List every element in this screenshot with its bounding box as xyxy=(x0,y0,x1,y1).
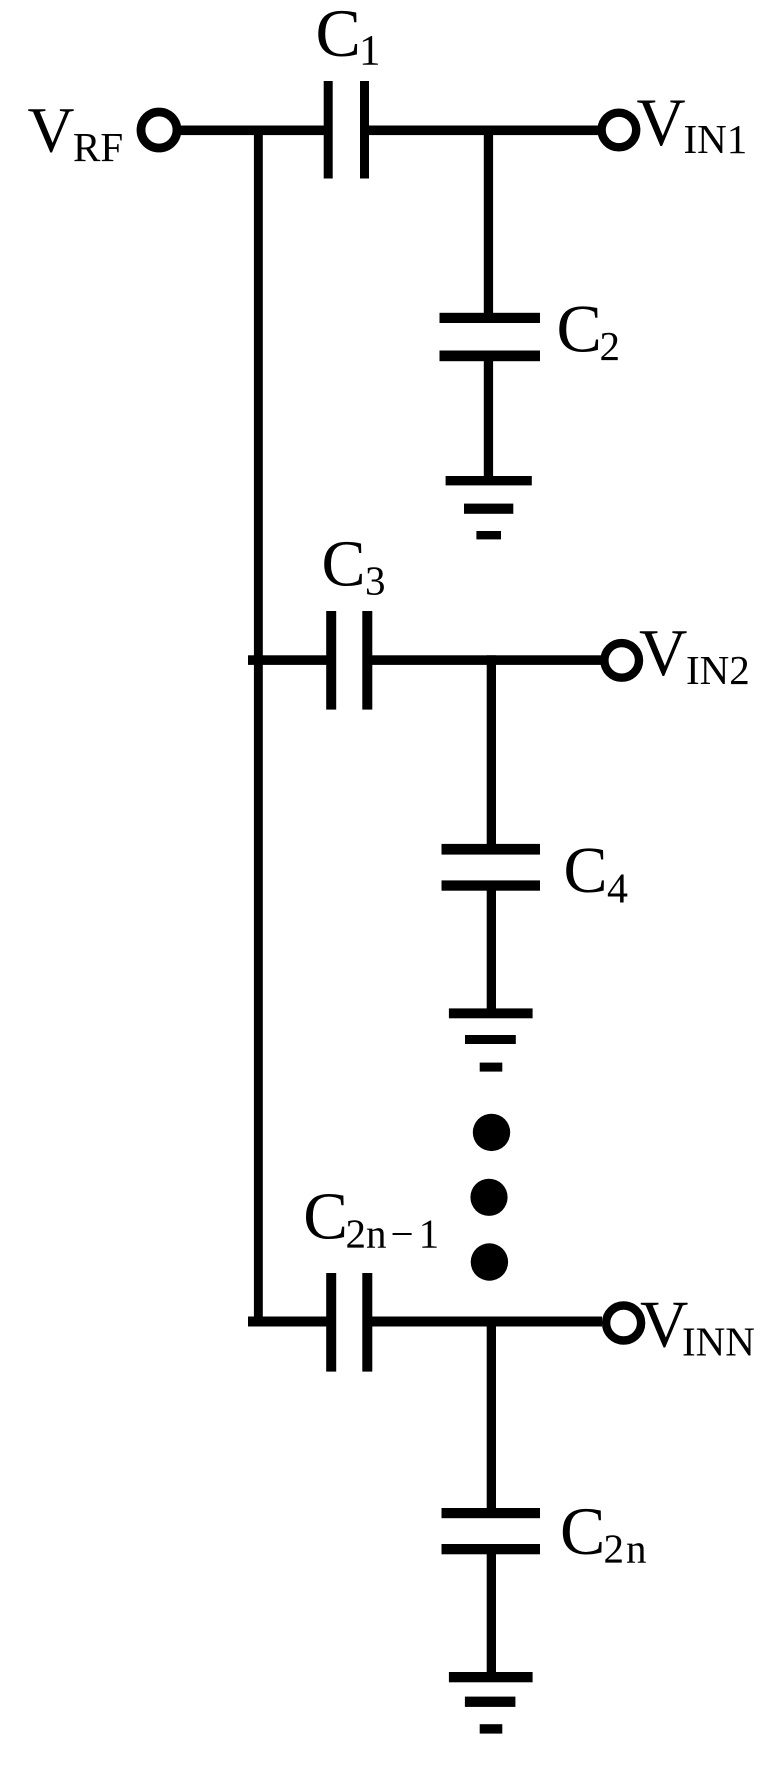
svg-text:V: V xyxy=(637,84,686,160)
svg-text:3: 3 xyxy=(365,558,386,604)
svg-text:4: 4 xyxy=(607,866,628,912)
svg-text:C: C xyxy=(303,1180,348,1254)
svg-text:IN2: IN2 xyxy=(686,647,750,693)
svg-text:V: V xyxy=(639,616,687,690)
svg-text:RF: RF xyxy=(73,124,123,170)
svg-text:1: 1 xyxy=(359,28,381,75)
svg-text:C: C xyxy=(564,834,608,907)
svg-text:C: C xyxy=(322,527,366,600)
svg-text:IN1: IN1 xyxy=(684,116,748,162)
svg-text:2: 2 xyxy=(600,323,621,369)
svg-text:C: C xyxy=(316,0,361,71)
svg-text:C: C xyxy=(557,291,602,367)
svg-text:C: C xyxy=(560,1493,605,1569)
svg-text:INN: INN xyxy=(682,1319,755,1365)
svg-text:2n−1: 2n−1 xyxy=(346,1211,440,1257)
svg-text:V: V xyxy=(28,95,75,167)
